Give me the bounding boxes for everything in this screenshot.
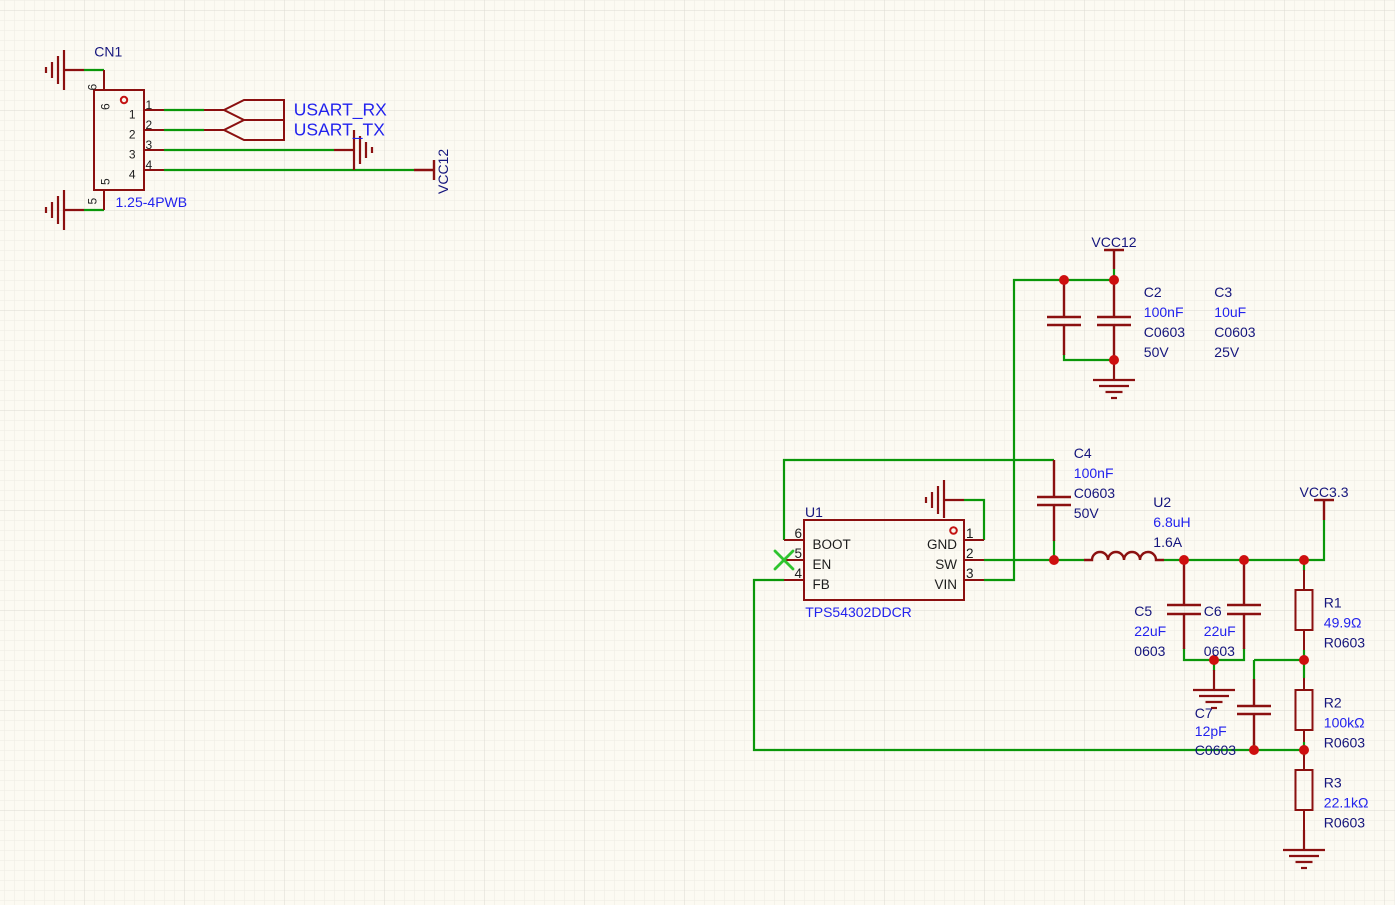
net port USART_RX bbox=[204, 109, 224, 111]
svg-text:R0603: R0603 bbox=[1324, 735, 1365, 751]
svg-text:5: 5 bbox=[99, 178, 113, 185]
wire U1 GND pin to ground bbox=[964, 500, 984, 540]
svg-text:3: 3 bbox=[129, 148, 136, 162]
no-connect X on U1 pin 5 bbox=[775, 551, 793, 569]
R2 leads bbox=[1303, 678, 1305, 742]
wire CN1 pin3 to GND bbox=[164, 149, 334, 151]
wire GND to CN1 pin6 bbox=[84, 69, 104, 71]
svg-text:6: 6 bbox=[794, 526, 802, 541]
svg-text:3: 3 bbox=[146, 138, 153, 152]
svg-text:C0603: C0603 bbox=[1195, 742, 1236, 758]
CN1 pin 6 bbox=[103, 70, 105, 90]
svg-text:VIN: VIN bbox=[934, 577, 957, 592]
text layer bbox=[86, 44, 1369, 831]
svg-text:49.9Ω: 49.9Ω bbox=[1324, 615, 1362, 631]
svg-text:R1: R1 bbox=[1324, 595, 1342, 611]
svg-text:6.8uH: 6.8uH bbox=[1153, 514, 1190, 530]
node C6 top bbox=[1239, 555, 1249, 565]
svg-text:R3: R3 bbox=[1324, 775, 1342, 791]
wire C5 bottom bbox=[1184, 648, 1244, 660]
U1 pin 6 BOOT bbox=[784, 539, 804, 541]
svg-text:6: 6 bbox=[99, 103, 113, 110]
svg-text:C2: C2 bbox=[1144, 284, 1162, 300]
svg-text:6: 6 bbox=[86, 84, 100, 91]
svg-text:BOOT: BOOT bbox=[813, 537, 851, 552]
svg-text:2: 2 bbox=[966, 546, 974, 561]
svg-text:C6: C6 bbox=[1204, 603, 1222, 619]
U1 pin 5 EN bbox=[784, 559, 804, 561]
svg-text:0603: 0603 bbox=[1134, 643, 1165, 659]
capacitor C2 bbox=[1047, 280, 1081, 355]
svg-text:VCC12: VCC12 bbox=[435, 149, 451, 194]
wire inductor out to VCC3.3 node bbox=[1164, 520, 1324, 560]
node SW / C4 bbox=[1049, 555, 1059, 565]
ground (below R3) bbox=[1283, 830, 1325, 868]
node R1/R2/C7 bbox=[1299, 655, 1309, 665]
capacitor C5 bbox=[1167, 560, 1201, 649]
U1 pin 3 VIN bbox=[964, 579, 984, 581]
svg-text:3: 3 bbox=[966, 566, 974, 581]
power flag VCC12 (top) bbox=[1104, 250, 1124, 269]
ground (above U1, rotated left) bbox=[926, 480, 964, 518]
CN1 pin 4 bbox=[144, 169, 164, 171]
svg-text:1: 1 bbox=[966, 526, 974, 541]
CN1 pin 5 bbox=[103, 190, 105, 210]
wire R1 top stub bbox=[1303, 560, 1305, 571]
U1 pin 2 SW bbox=[964, 559, 984, 561]
svg-text:C7: C7 bbox=[1195, 705, 1213, 721]
svg-text:25V: 25V bbox=[1214, 344, 1240, 360]
svg-text:12pF: 12pF bbox=[1195, 723, 1227, 739]
R3 leads bbox=[1303, 755, 1305, 830]
wire VCC12 flag stem lower bbox=[1113, 269, 1115, 280]
inductor U2 bbox=[1084, 552, 1164, 560]
svg-text:R0603: R0603 bbox=[1324, 635, 1365, 651]
wire C7 bottom stub bbox=[1253, 742, 1255, 750]
svg-text:4: 4 bbox=[146, 158, 153, 172]
svg-text:C0603: C0603 bbox=[1214, 324, 1255, 340]
net port USART_TX bbox=[204, 129, 224, 131]
wire R1 bottom / R2 top stubs bbox=[1303, 650, 1305, 678]
svg-text:C5: C5 bbox=[1134, 603, 1152, 619]
wire GND to CN1 pin5 bbox=[84, 209, 104, 211]
resistor R1 body bbox=[1296, 590, 1313, 630]
node VCC12 rail / C2 bbox=[1059, 275, 1069, 285]
wire VIN to VCC12 rail bbox=[984, 280, 1114, 580]
wire CN1 pin1 to USART_RX port bbox=[164, 109, 204, 111]
capacitor C3 bbox=[1097, 280, 1131, 360]
svg-text:C0603: C0603 bbox=[1144, 324, 1185, 340]
svg-text:5: 5 bbox=[86, 198, 100, 205]
node C7 bottom / FB bbox=[1249, 745, 1259, 755]
node VCC3.3 / R1 bbox=[1299, 555, 1309, 565]
svg-text:USART_TX: USART_TX bbox=[294, 120, 385, 141]
U1 pin 4 FB bbox=[784, 579, 804, 581]
wire R2 bottom stub bbox=[1303, 742, 1305, 750]
IC U1 body bbox=[804, 520, 964, 600]
R1 leads bbox=[1303, 570, 1305, 650]
resistor R3 body bbox=[1296, 770, 1313, 810]
wire ground stub at C5/C6 node bbox=[1213, 660, 1215, 671]
svg-text:EN: EN bbox=[813, 557, 832, 572]
svg-text:FB: FB bbox=[813, 577, 830, 592]
svg-text:22.1kΩ: 22.1kΩ bbox=[1324, 795, 1369, 811]
svg-text:4: 4 bbox=[794, 566, 802, 581]
svg-text:100nF: 100nF bbox=[1074, 465, 1114, 481]
capacitor C4 bbox=[1037, 460, 1071, 541]
wire FB to feedback node bbox=[754, 580, 1304, 750]
svg-text:50V: 50V bbox=[1144, 344, 1170, 360]
node C5/C6 ground bbox=[1209, 655, 1219, 665]
capacitor C7 bbox=[1237, 679, 1271, 745]
U1 pin 1 GND bbox=[964, 539, 984, 541]
node SW out / C5 bbox=[1179, 555, 1189, 565]
svg-text:SW: SW bbox=[935, 557, 957, 572]
svg-text:CN1: CN1 bbox=[94, 44, 122, 60]
svg-text:C0603: C0603 bbox=[1074, 485, 1115, 501]
svg-text:100nF: 100nF bbox=[1144, 304, 1184, 320]
svg-text:1.25-4PWB: 1.25-4PWB bbox=[116, 194, 188, 210]
svg-text:R0603: R0603 bbox=[1324, 815, 1365, 831]
svg-text:R2: R2 bbox=[1324, 695, 1342, 711]
wire C7 top to R1/R2 node bbox=[1254, 660, 1304, 680]
power flag VCC3.3 bbox=[1314, 500, 1334, 520]
resistor R2 body bbox=[1296, 690, 1313, 730]
wire C2 bottom to C3 node bbox=[1064, 354, 1114, 360]
wire BOOT to C4 top bbox=[784, 460, 1054, 540]
wire CN1 pin4 to VCC12 bbox=[164, 169, 414, 171]
node C2/C3 bottom bbox=[1109, 355, 1119, 365]
wire SW to C4 bottom node bbox=[984, 559, 1084, 561]
svg-text:C3: C3 bbox=[1214, 284, 1232, 300]
svg-text:100kΩ: 100kΩ bbox=[1324, 715, 1365, 731]
svg-text:4: 4 bbox=[129, 168, 136, 182]
CN1 pin 3 bbox=[144, 149, 164, 151]
svg-text:22uF: 22uF bbox=[1134, 623, 1166, 639]
svg-text:10uF: 10uF bbox=[1214, 304, 1246, 320]
svg-text:U1: U1 bbox=[805, 504, 823, 520]
node R2/R3/FB bbox=[1299, 745, 1309, 755]
svg-text:22uF: 22uF bbox=[1204, 623, 1236, 639]
CN1 pin 2 bbox=[144, 129, 164, 131]
wire C4 bottom stub bbox=[1053, 540, 1055, 560]
CN1 pin-1 marker circle bbox=[121, 97, 127, 103]
capacitor C6 bbox=[1227, 560, 1261, 649]
svg-text:1.6A: 1.6A bbox=[1153, 534, 1182, 550]
ground (CN1 pin3, rotated right) bbox=[334, 130, 372, 170]
svg-text:0603: 0603 bbox=[1204, 643, 1235, 659]
CN1 pin 1 bbox=[144, 109, 164, 111]
node VCC12 rail / C3 bbox=[1109, 275, 1119, 285]
wires layer bbox=[84, 70, 1324, 756]
svg-text:1: 1 bbox=[146, 98, 153, 112]
ground (top-left, rotated left) bbox=[46, 50, 84, 90]
svg-text:U2: U2 bbox=[1153, 494, 1171, 510]
wire R3 top stub bbox=[1303, 750, 1305, 756]
svg-text:VCC3.3: VCC3.3 bbox=[1299, 484, 1348, 500]
svg-text:1: 1 bbox=[129, 108, 136, 122]
svg-text:50V: 50V bbox=[1074, 505, 1100, 521]
ground (below C3) bbox=[1093, 360, 1135, 398]
power flag VCC12 (rotated, CN1 pin4) bbox=[414, 160, 434, 180]
svg-text:USART_RX: USART_RX bbox=[294, 100, 387, 121]
ground (bottom-left, rotated left) bbox=[46, 190, 84, 230]
connector CN1 body bbox=[94, 90, 144, 190]
svg-text:2: 2 bbox=[146, 118, 153, 132]
svg-text:TPS54302DDCR: TPS54302DDCR bbox=[805, 604, 912, 620]
U1 pin-1 marker circle bbox=[950, 527, 957, 534]
ground (below C5/C6) bbox=[1193, 670, 1235, 708]
svg-text:GND: GND bbox=[927, 537, 957, 552]
junctions layer bbox=[1049, 275, 1309, 755]
wire CN1 pin2 to USART_TX port bbox=[164, 129, 204, 131]
svg-text:VCC12: VCC12 bbox=[1091, 234, 1136, 250]
svg-text:C4: C4 bbox=[1074, 445, 1092, 461]
svg-text:2: 2 bbox=[129, 128, 136, 142]
svg-text:5: 5 bbox=[794, 546, 802, 561]
